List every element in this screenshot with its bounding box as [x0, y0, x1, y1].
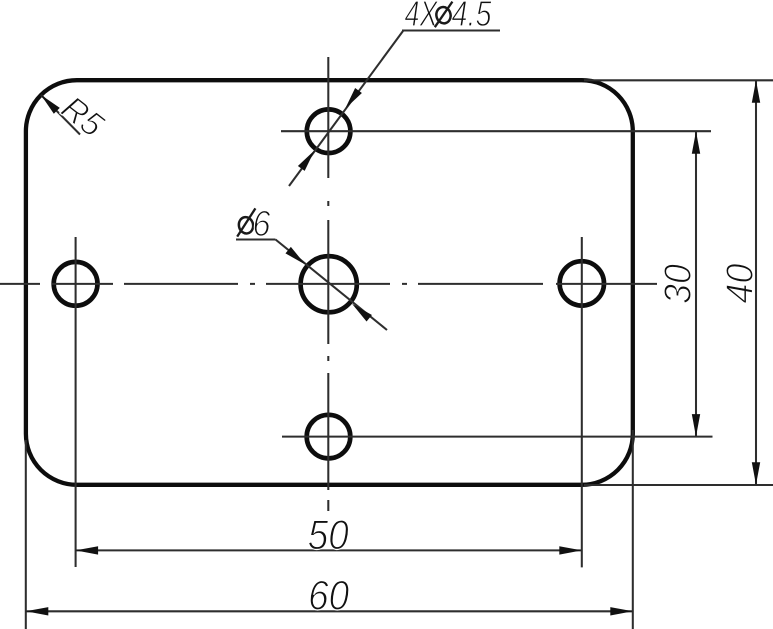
dimension 40 arrow up	[752, 80, 760, 103]
svg-text:6: 6	[253, 203, 272, 244]
hole bottom (4.5 dia)	[307, 415, 351, 459]
svg-text:60: 60	[308, 572, 350, 619]
hole right (4.5 dia)	[560, 261, 604, 305]
svg-text:30: 30	[658, 264, 700, 304]
dimension 40 text	[720, 264, 762, 304]
svg-text:4.5: 4.5	[452, 0, 493, 34]
leader dia6 diagonal line through center hole	[276, 240, 388, 331]
label dia 6	[237, 203, 271, 244]
leader 4X4.5 arrow upper	[342, 88, 362, 111]
label 4X dia 4.5	[405, 0, 493, 34]
hole center (6 dia)	[301, 256, 357, 312]
dimension 50 line	[76, 549, 582, 551]
leader dia6 underline	[236, 238, 276, 240]
svg-text:40: 40	[720, 264, 762, 304]
leader 4X4.5 arrow lower	[298, 148, 318, 171]
hole top (4.5 dia)	[307, 109, 351, 153]
dimension 50 arrow left	[76, 546, 99, 554]
dimension 60 line	[26, 610, 633, 612]
extension line right edge for 60 dim	[632, 430, 634, 629]
leader 4X4.5 diagonal line through top hole	[289, 31, 403, 186]
svg-text:4X: 4X	[405, 0, 439, 34]
dimension 60 arrow right	[610, 607, 633, 615]
horizontal centerline (dash-dot through left, center, right holes)	[0, 283, 657, 285]
dimension 50 text	[308, 511, 350, 558]
dimension 60 arrow left	[26, 607, 49, 615]
dimension 60 text	[308, 572, 350, 619]
dimension 30 arrow up	[692, 131, 700, 154]
label R5	[54, 89, 111, 145]
top hole horizontal centerline / extension for 30 dim	[281, 130, 711, 132]
vertical centerline (dash-dot through top, center, bottom holes)	[327, 57, 329, 511]
dimension 30 text	[658, 264, 700, 304]
leader dia6 arrow lower-right	[349, 301, 372, 322]
dimension 50 arrow right	[559, 546, 582, 554]
left hole vertical centerline / extension to 50 dim	[75, 237, 77, 567]
leader R5 arrow	[38, 92, 60, 114]
extension line top edge for 40 dim	[584, 79, 773, 81]
dimension 30 arrow down	[692, 414, 700, 437]
dimension 40 line	[755, 80, 757, 485]
right hole vertical centerline / extension to 50 dim	[581, 237, 583, 567]
extension line bottom edge for 40 dim	[584, 484, 773, 486]
leader 4X4.5 underline	[402, 29, 500, 31]
plate outline (60x40, R5 corners)	[26, 80, 633, 485]
dimension 40 arrow down	[752, 462, 760, 485]
dimension 30 line	[695, 131, 697, 436]
extension line left edge for 60 dim	[25, 440, 27, 629]
svg-text:50: 50	[308, 511, 350, 558]
bottom hole horizontal centerline / extension for 30 dim	[282, 436, 713, 438]
leader dia6 arrow upper-left	[285, 247, 308, 268]
leader R5 line	[41, 95, 80, 135]
hole left (4.5 dia)	[54, 262, 98, 306]
